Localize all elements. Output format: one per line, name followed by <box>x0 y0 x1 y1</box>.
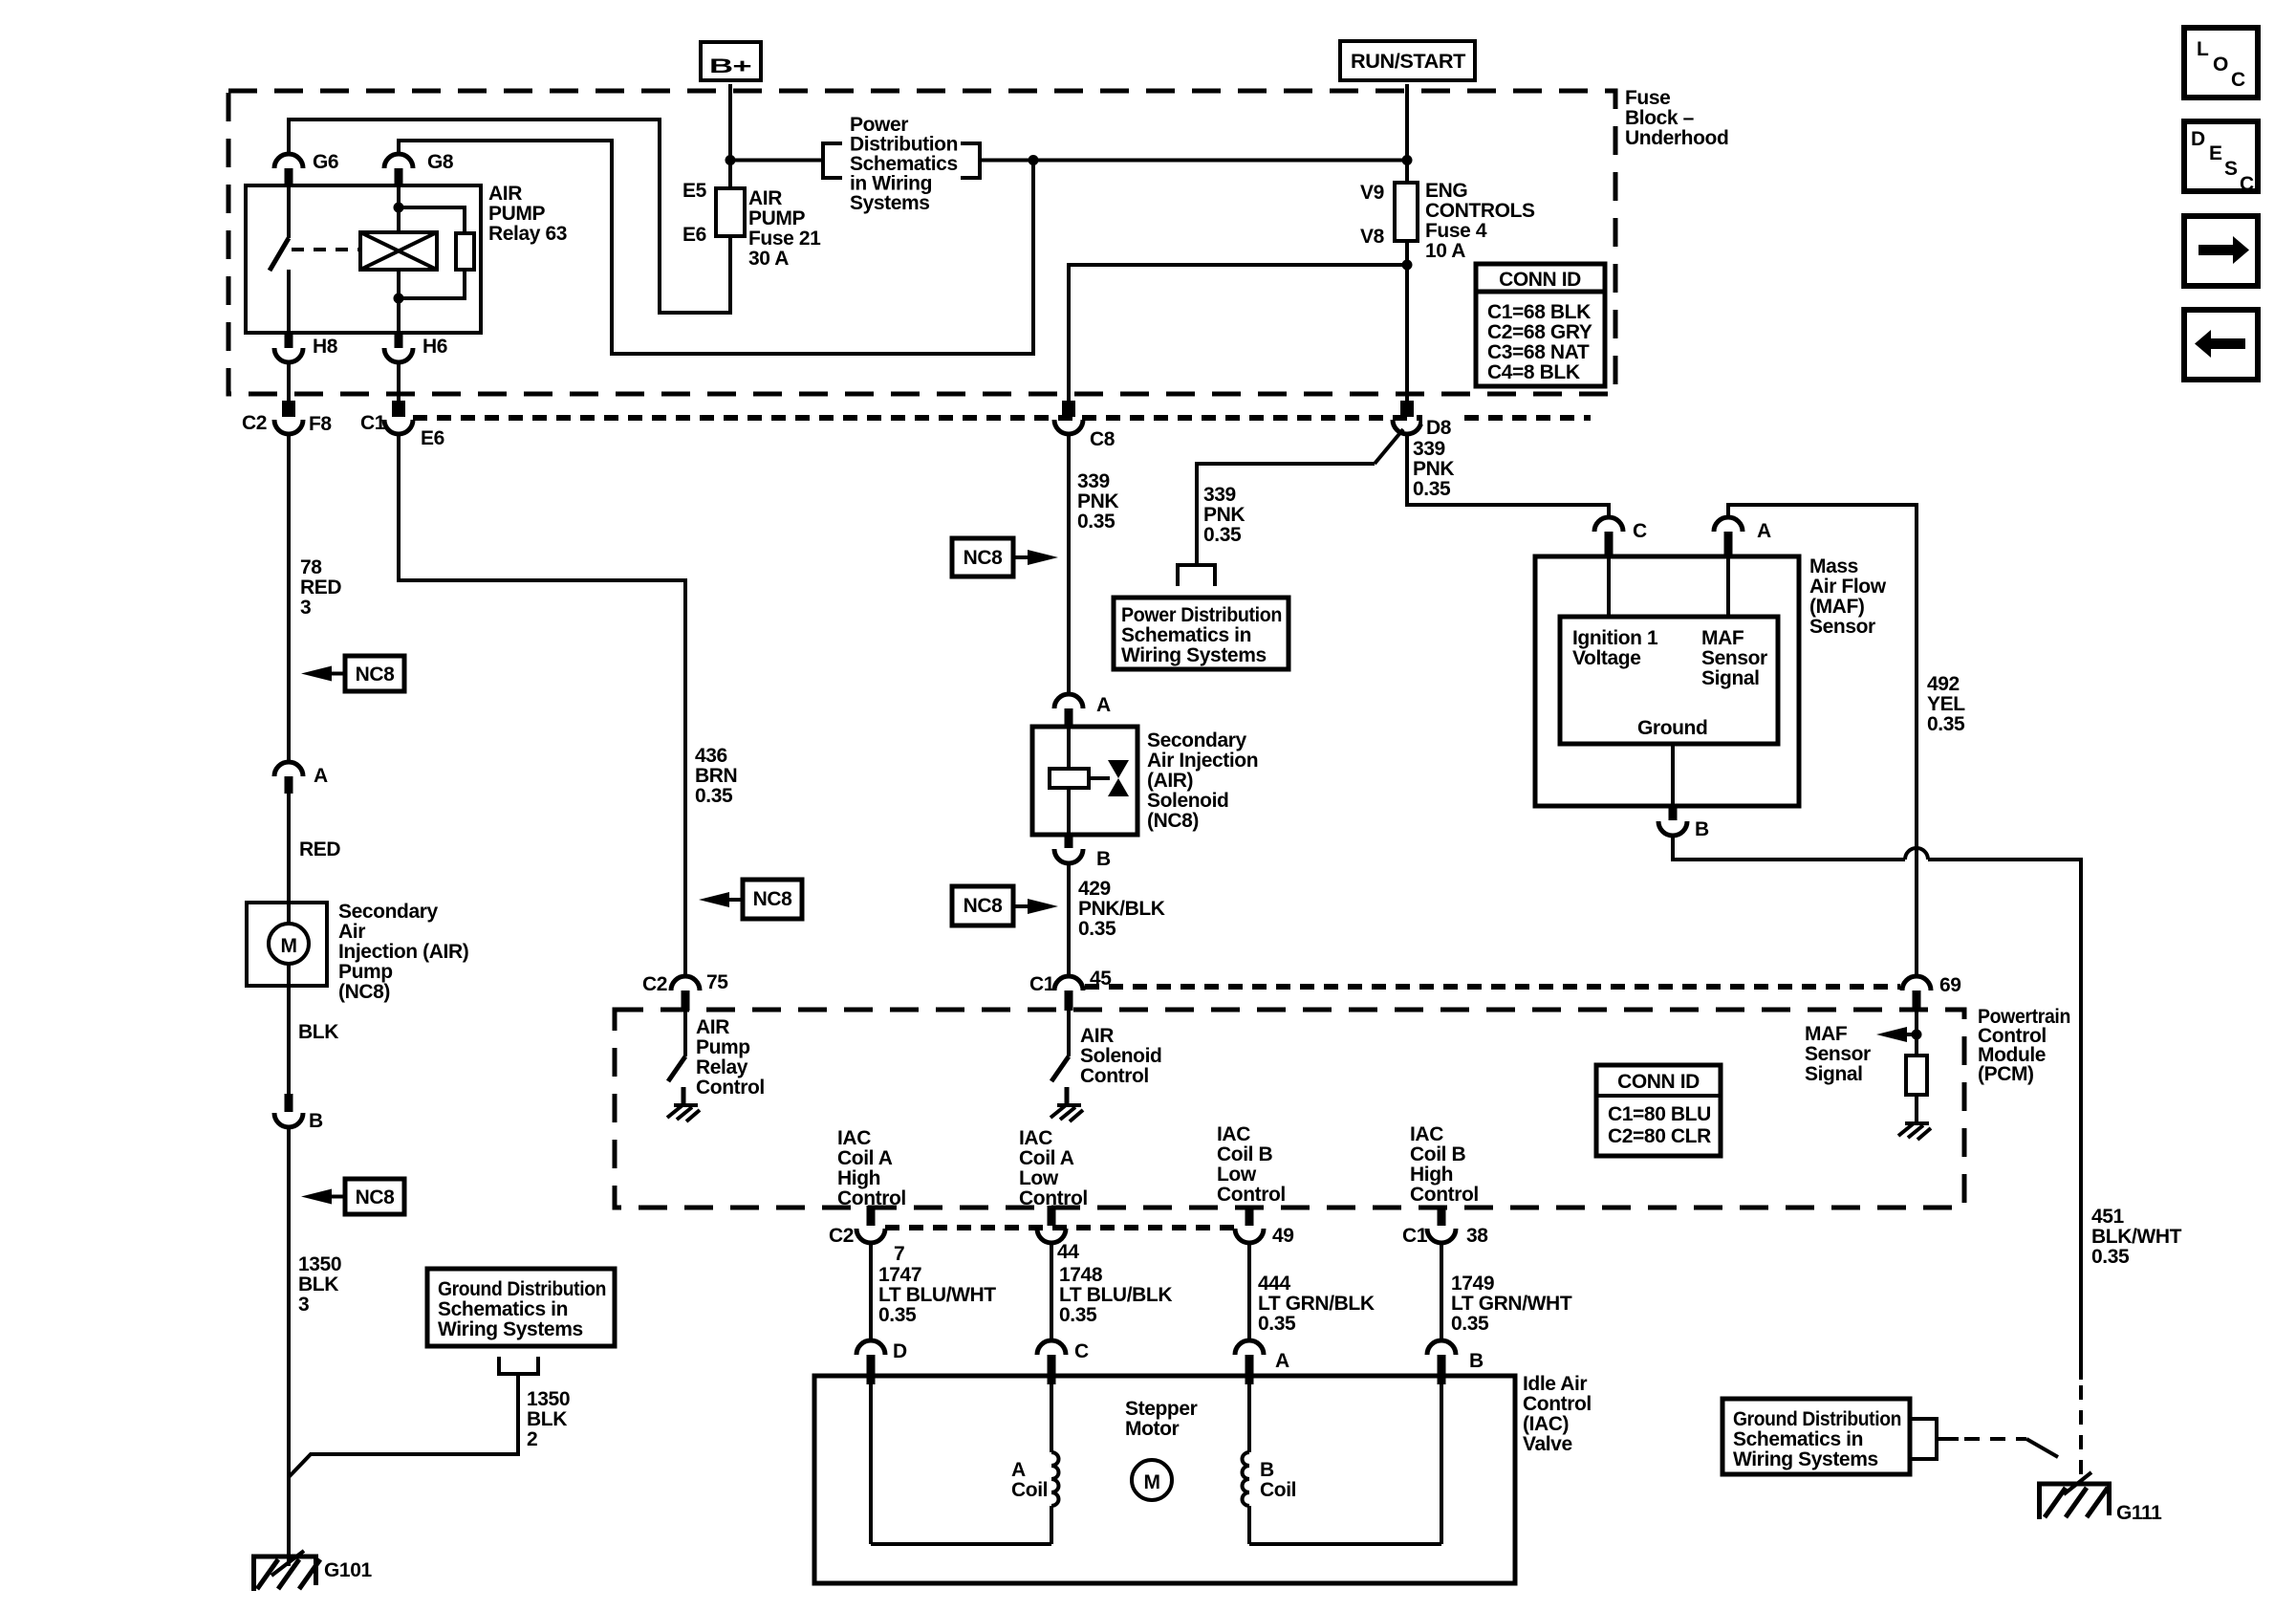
svg-text:Voltage: Voltage <box>1572 647 1641 669</box>
svg-text:38: 38 <box>1466 1225 1488 1247</box>
svg-text:0.35: 0.35 <box>1413 478 1451 500</box>
connector B MAF <box>1658 806 1709 840</box>
svg-text:C3=68 NAT: C3=68 NAT <box>1487 341 1590 363</box>
svg-text:CONTROLS: CONTROLS <box>1425 200 1535 222</box>
wire 451 BLK/WHT B to G111 with hop <box>1673 836 2081 1380</box>
wire MAF pin C <box>1607 556 1611 617</box>
node coil bottom junction <box>394 294 404 304</box>
svg-text:(NC8): (NC8) <box>338 981 390 1003</box>
ground distribution box right <box>1722 1399 1910 1474</box>
PCM air pump relay control driver <box>668 1011 765 1105</box>
svg-text:1350: 1350 <box>298 1253 341 1275</box>
svg-text:339: 339 <box>1203 484 1236 506</box>
svg-text:0.35: 0.35 <box>1077 511 1116 533</box>
svg-text:0.35: 0.35 <box>1203 524 1242 546</box>
connector C IAC <box>1037 1340 1089 1384</box>
svg-text:Mass: Mass <box>1809 555 1858 577</box>
connector D IAC <box>856 1340 907 1384</box>
svg-text:NC8: NC8 <box>356 1186 396 1208</box>
node junction dot G8 feed tap <box>1029 155 1039 165</box>
svg-text:Coil A: Coil A <box>837 1147 893 1169</box>
label Power Distribution Schematics in Wiring Systems <box>850 114 958 214</box>
svg-text:RED: RED <box>299 838 340 860</box>
wire 492 YEL top to MAF A <box>1728 505 1917 976</box>
connector C2 F8 <box>242 401 332 435</box>
wire 1350 BLK 2 to ground <box>289 1374 518 1477</box>
svg-text:0.35: 0.35 <box>1451 1313 1489 1335</box>
svg-text:AIR: AIR <box>1080 1025 1114 1047</box>
svg-text:339: 339 <box>1413 438 1445 460</box>
svg-text:B: B <box>1695 818 1709 840</box>
svg-text:MAF: MAF <box>1805 1023 1848 1045</box>
icon LOC box <box>2184 28 2258 98</box>
svg-text:PUMP: PUMP <box>488 203 545 225</box>
relay K AIR PUMP Relay 83 box <box>246 183 567 333</box>
svg-text:Block –: Block – <box>1625 107 1695 129</box>
label BLK <box>298 1021 338 1043</box>
svg-text:C2: C2 <box>829 1225 854 1247</box>
wire IAC D leg <box>869 1384 873 1544</box>
relay coil box with X <box>360 232 437 270</box>
svg-text:Coil A: Coil A <box>1019 1147 1074 1169</box>
svg-text:B: B <box>1469 1350 1484 1372</box>
svg-text:C2: C2 <box>242 412 267 434</box>
svg-text:(AIR): (AIR) <box>1147 770 1193 792</box>
power distribution schematics left bracket <box>823 143 842 178</box>
solenoid coil element <box>1050 727 1110 835</box>
svg-text:AIR: AIR <box>488 183 522 205</box>
svg-text:LT GRN/BLK: LT GRN/BLK <box>1258 1293 1375 1315</box>
node junction dot V8 tap to C8 <box>1402 260 1413 271</box>
svg-text:D: D <box>893 1340 907 1362</box>
svg-text:Fuse: Fuse <box>1625 87 1670 109</box>
NC8 reference box left arrow at 436 BRN <box>699 880 802 919</box>
svg-text:E: E <box>2209 142 2222 164</box>
svg-text:Air Injection: Air Injection <box>1147 750 1258 772</box>
icon forward arrow box <box>2184 216 2258 286</box>
svg-text:C: C <box>1633 520 1647 542</box>
svg-text:High: High <box>837 1167 880 1189</box>
svg-text:Air: Air <box>338 921 365 943</box>
label Fuse Block - Underhood <box>1625 87 1728 149</box>
svg-text:A: A <box>1275 1350 1289 1372</box>
relay actuator dashed link <box>292 248 358 251</box>
node junction dot at RUN/START line <box>1402 155 1413 165</box>
svg-text:PUMP: PUMP <box>748 207 805 229</box>
svg-text:V8: V8 <box>1360 226 1385 248</box>
label 339 PNK 0.35 at C8 <box>1077 470 1118 533</box>
label 429 PNK/BLK 0.35 <box>1078 878 1165 940</box>
connector C2 7 <box>829 1206 904 1265</box>
label 492 YEL 0.35 <box>1927 673 1965 735</box>
svg-text:Air Flow: Air Flow <box>1809 576 1887 598</box>
wire H8 to C2 F8 <box>287 362 291 403</box>
svg-text:LT BLU/BLK: LT BLU/BLK <box>1059 1284 1172 1306</box>
connector G6 <box>274 151 338 186</box>
B+ power feed box <box>701 42 761 80</box>
svg-text:Sensor: Sensor <box>1805 1043 1871 1065</box>
svg-text:C: C <box>2240 173 2254 195</box>
svg-text:AIR: AIR <box>748 187 782 209</box>
wire IAC B leg <box>1440 1384 1443 1544</box>
connector A MAF <box>1714 517 1771 556</box>
svg-text:B: B <box>1260 1459 1274 1481</box>
svg-text:B+: B+ <box>709 55 751 77</box>
svg-text:G111: G111 <box>2116 1502 2162 1524</box>
svg-text:Low: Low <box>1217 1164 1257 1186</box>
wire power distribution to RUN/START line <box>980 159 1407 163</box>
svg-text:Schematics in: Schematics in <box>438 1298 568 1320</box>
svg-text:0.35: 0.35 <box>1258 1313 1296 1335</box>
svg-text:Power Distribution: Power Distribution <box>1121 604 1282 626</box>
svg-text:High: High <box>1410 1164 1453 1186</box>
svg-text:CONN ID: CONN ID <box>1617 1071 1700 1093</box>
connector 69 <box>1902 974 1961 1011</box>
connector A solenoid <box>1054 694 1111 727</box>
svg-text:Secondary: Secondary <box>338 901 438 923</box>
svg-text:Relay 63: Relay 63 <box>488 223 567 245</box>
svg-text:Coil B: Coil B <box>1217 1143 1272 1165</box>
svg-text:BLK: BLK <box>527 1408 567 1430</box>
svg-text:G8: G8 <box>427 151 454 173</box>
svg-text:30 A: 30 A <box>748 248 789 270</box>
svg-text:Fuse 21: Fuse 21 <box>748 228 821 250</box>
svg-text:G6: G6 <box>313 151 338 173</box>
wire dashed 451 to G111 <box>2079 1385 2083 1476</box>
svg-text:E6: E6 <box>682 224 706 246</box>
svg-text:PNK: PNK <box>1077 490 1118 512</box>
PCM internal ground air pump relay <box>667 1105 700 1121</box>
wire 429 PNK/BLK solenoid B to C1 45 <box>1067 863 1071 976</box>
wire resistor bottom to coil bottom junction <box>399 270 465 298</box>
svg-text:Control: Control <box>1080 1065 1149 1087</box>
RUN/START power feed box <box>1340 41 1475 80</box>
svg-text:1748: 1748 <box>1059 1264 1103 1286</box>
svg-text:Idle Air: Idle Air <box>1523 1373 1587 1395</box>
label 1350 BLK 2 <box>527 1388 570 1450</box>
PCM internal ground MAF <box>1898 1123 1931 1140</box>
svg-text:Solenoid: Solenoid <box>1080 1045 1161 1067</box>
wire 1747 LT BLU/WHT <box>869 1243 873 1341</box>
svg-text:NC8: NC8 <box>964 547 1004 569</box>
svg-text:Relay: Relay <box>696 1056 748 1078</box>
connector C1 E6 <box>360 401 444 449</box>
svg-text:Control: Control <box>696 1077 765 1099</box>
svg-text:BLK/WHT: BLK/WHT <box>2091 1226 2182 1248</box>
svg-text:M: M <box>280 935 296 957</box>
PCM C1 harness dotted row <box>1085 984 1900 990</box>
svg-text:C1=68 BLK: C1=68 BLK <box>1487 301 1591 323</box>
ground G111 <box>2037 1472 2162 1524</box>
solenoid secondary air injection box <box>1032 727 1258 835</box>
label 1749 LT GRN/WHT 0.35 <box>1451 1273 1572 1335</box>
svg-text:1350: 1350 <box>527 1388 570 1410</box>
svg-text:PNK/BLK: PNK/BLK <box>1078 898 1165 920</box>
svg-text:0.35: 0.35 <box>1059 1304 1097 1326</box>
svg-text:75: 75 <box>706 971 728 993</box>
svg-text:C: C <box>2231 69 2245 91</box>
svg-text:0.35: 0.35 <box>2091 1246 2130 1268</box>
svg-text:45: 45 <box>1090 968 1112 990</box>
label 78 RED 3 <box>300 556 341 619</box>
svg-text:BLK: BLK <box>298 1021 338 1043</box>
label 436 BRN 0.35 <box>695 745 737 807</box>
wire 1748 LT BLU/BLK <box>1050 1243 1053 1341</box>
power distribution schematics box middle <box>1114 598 1289 669</box>
svg-text:PNK: PNK <box>1203 504 1245 526</box>
svg-text:E5: E5 <box>682 180 707 202</box>
wire D8 down and right to MAF C <box>1407 434 1609 518</box>
svg-text:339: 339 <box>1077 470 1110 492</box>
wire 339 PNK C8 to solenoid A <box>1067 434 1071 695</box>
svg-text:Wiring Systems: Wiring Systems <box>1121 644 1267 666</box>
connector C1 45 <box>1029 968 1112 1011</box>
svg-text:C1: C1 <box>360 412 386 434</box>
ground distribution right bracket <box>1910 1419 1959 1459</box>
svg-text:PNK: PNK <box>1413 458 1454 480</box>
ground distribution box left <box>427 1269 615 1346</box>
connector D8 <box>1393 401 1462 439</box>
svg-text:NC8: NC8 <box>753 888 793 910</box>
NC8 reference box left arrow upper <box>301 656 404 691</box>
wire G8 feed: tap down, left, up to G8 <box>399 141 1033 354</box>
svg-text:YEL: YEL <box>1927 693 1965 715</box>
svg-text:436: 436 <box>695 745 727 767</box>
inductor B coil <box>1243 1384 1297 1544</box>
icon DESC box <box>2184 121 2258 195</box>
svg-text:LT GRN/WHT: LT GRN/WHT <box>1451 1293 1572 1315</box>
motor stepper circle <box>1132 1460 1172 1500</box>
svg-text:Ground Distribution: Ground Distribution <box>1733 1408 1901 1430</box>
power distribution schematics right bracket <box>961 143 980 178</box>
svg-text:C4=8 BLK: C4=8 BLK <box>1487 361 1580 383</box>
svg-text:Signal: Signal <box>1805 1063 1863 1085</box>
wire 1749 LT GRN/WHT <box>1440 1243 1443 1341</box>
svg-text:L: L <box>2197 38 2209 60</box>
svg-text:C: C <box>1074 1340 1089 1362</box>
icon back arrow box <box>2184 310 2258 380</box>
svg-text:Pump: Pump <box>338 961 393 983</box>
wire BLK pump to B <box>287 986 291 1094</box>
ground G101 <box>251 1551 372 1591</box>
svg-text:Solenoid: Solenoid <box>1147 790 1228 812</box>
svg-text:BRN: BRN <box>695 765 737 787</box>
svg-text:G101: G101 <box>324 1559 372 1581</box>
svg-text:0.35: 0.35 <box>1078 918 1116 940</box>
resistor relay suppression <box>456 233 474 270</box>
wire RED to pump motor <box>287 794 291 903</box>
svg-text:O: O <box>2213 54 2228 76</box>
svg-text:RED: RED <box>300 577 341 599</box>
label Stepper Motor <box>1125 1398 1198 1440</box>
svg-text:C8: C8 <box>1090 428 1116 450</box>
fuse ENG CONTROLS Fuse 4 10A <box>1360 180 1535 262</box>
svg-text:Fuse 4: Fuse 4 <box>1425 220 1487 242</box>
label 339 PNK 0.35 at D8 <box>1413 438 1454 500</box>
label IAC Coil A Low Control <box>1019 1127 1088 1209</box>
connector 49 <box>1235 1206 1294 1247</box>
svg-text:BLK: BLK <box>298 1274 338 1295</box>
svg-text:Control: Control <box>1217 1184 1286 1206</box>
svg-text:Low: Low <box>1019 1167 1059 1189</box>
svg-text:Stepper: Stepper <box>1125 1398 1198 1420</box>
svg-text:A: A <box>1757 520 1771 542</box>
wire 339 PNK branch to power distribution <box>1197 429 1403 565</box>
svg-text:(PCM): (PCM) <box>1978 1063 2034 1085</box>
svg-text:RUN/START: RUN/START <box>1351 51 1466 73</box>
MAF sensor outer box <box>1535 555 1887 806</box>
svg-text:Pump: Pump <box>696 1036 750 1058</box>
label RED <box>299 838 340 860</box>
NC8 reference box left arrow lower <box>301 1179 404 1214</box>
svg-text:1749: 1749 <box>1451 1273 1494 1295</box>
wire IAC B coil loop bottom <box>1249 1542 1441 1546</box>
svg-text:Schematics in: Schematics in <box>1121 624 1251 646</box>
svg-text:Wiring Systems: Wiring Systems <box>1733 1448 1878 1470</box>
svg-text:78: 78 <box>300 556 322 578</box>
label IAC Coil B High Control <box>1410 1123 1479 1206</box>
connector B air pump <box>274 1094 323 1132</box>
svg-text:C2=68 GRY: C2=68 GRY <box>1487 321 1592 343</box>
wire 444 LT GRN/BLK <box>1247 1243 1251 1341</box>
wire coil top to resistor top <box>399 207 465 233</box>
wire B+ down to fuse E5 <box>728 84 732 188</box>
svg-text:2: 2 <box>527 1428 537 1450</box>
node coil top junction <box>394 203 404 213</box>
svg-text:H8: H8 <box>313 336 338 358</box>
connector C8 <box>1054 401 1116 450</box>
svg-text:451: 451 <box>2091 1206 2125 1228</box>
PCM MAF sensor signal input <box>1805 1011 1922 1085</box>
svg-text:69: 69 <box>1939 974 1961 996</box>
svg-text:C2: C2 <box>642 973 667 995</box>
connector C1 38 <box>1402 1206 1488 1247</box>
connector H8 <box>274 333 338 362</box>
svg-text:429: 429 <box>1078 878 1111 900</box>
connector C MAF <box>1594 517 1647 556</box>
svg-text:444: 444 <box>1258 1273 1291 1295</box>
wire fuse V8 down to D8 <box>1405 241 1409 403</box>
PCM internal ground air solenoid <box>1051 1105 1083 1121</box>
ground distribution bracket <box>499 1357 538 1374</box>
wire RUN/START down to fuse V9 <box>1405 84 1409 183</box>
svg-text:F8: F8 <box>309 413 332 435</box>
motor secondary air injection pump <box>247 901 468 1003</box>
connector B IAC <box>1427 1340 1484 1384</box>
svg-text:Injection (AIR): Injection (AIR) <box>338 941 468 963</box>
MAF sensor inner box <box>1560 617 1778 744</box>
svg-text:Systems: Systems <box>850 192 930 214</box>
powertrain control module dashed border <box>615 1006 2070 1208</box>
svg-text:Sensor: Sensor <box>1809 616 1875 638</box>
wire coil bottom to H6 <box>397 270 401 333</box>
svg-text:A: A <box>314 765 328 787</box>
svg-text:H6: H6 <box>422 336 447 358</box>
svg-text:Sensor: Sensor <box>1701 647 1767 669</box>
svg-text:NC8: NC8 <box>964 895 1004 917</box>
wire dashed ground distribution to G111 <box>1964 1439 2058 1457</box>
label IAC Coil A High Control <box>837 1127 906 1209</box>
svg-text:492: 492 <box>1927 673 1960 695</box>
svg-text:IAC: IAC <box>1019 1127 1052 1149</box>
svg-text:IAC: IAC <box>1217 1123 1250 1145</box>
svg-text:3: 3 <box>298 1294 309 1316</box>
CONN ID table PCM <box>1596 1065 1721 1156</box>
label 339 PNK 0.35 branch <box>1203 484 1245 546</box>
svg-text:Ignition 1: Ignition 1 <box>1572 627 1658 649</box>
label 451 BLK/WHT 0.35 <box>2091 1206 2182 1268</box>
connector B solenoid <box>1054 835 1111 870</box>
node junction dot at B+ tap <box>726 155 736 165</box>
label 1747 LT BLU/WHT 0.35 <box>878 1264 996 1326</box>
connector C2 75 <box>642 971 728 1011</box>
idle air control valve box <box>814 1373 1592 1583</box>
svg-text:NC8: NC8 <box>356 664 396 686</box>
svg-text:0.35: 0.35 <box>1927 713 1965 735</box>
power distribution branch bracket <box>1178 565 1215 586</box>
wire MAF ground to B <box>1671 744 1675 806</box>
wire MAF pin A <box>1726 556 1730 617</box>
label 1748 LT BLU/BLK 0.35 <box>1059 1264 1172 1326</box>
svg-text:M: M <box>1143 1471 1159 1493</box>
svg-text:Control: Control <box>1410 1184 1479 1206</box>
svg-text:Secondary: Secondary <box>1147 729 1246 751</box>
svg-text:V9: V9 <box>1360 182 1384 204</box>
IAC harness connector dotted row <box>885 1225 1237 1230</box>
svg-text:C2=80 CLR: C2=80 CLR <box>1608 1125 1711 1147</box>
svg-text:LT BLU/WHT: LT BLU/WHT <box>878 1284 996 1306</box>
wire B+ tap to power distribution bracket <box>730 159 823 163</box>
svg-text:(IAC): (IAC) <box>1523 1413 1569 1435</box>
svg-text:MAF: MAF <box>1701 627 1744 649</box>
svg-text:A: A <box>1096 694 1111 716</box>
label 1350 BLK 3 <box>298 1253 341 1316</box>
wire IAC A coil loop bottom <box>871 1542 1051 1546</box>
solenoid valve bowtie <box>1108 760 1129 796</box>
svg-text:7: 7 <box>894 1243 904 1265</box>
svg-text:Valve: Valve <box>1523 1433 1572 1455</box>
label IAC Coil B Low Control <box>1217 1123 1286 1206</box>
svg-text:B: B <box>309 1110 323 1132</box>
svg-text:Wiring Systems: Wiring Systems <box>438 1318 583 1340</box>
svg-text:C1: C1 <box>1402 1225 1428 1247</box>
label 444 LT GRN/BLK 0.35 <box>1258 1273 1375 1335</box>
svg-text:S: S <box>2224 158 2238 180</box>
wire H6 to C1 E6 <box>397 362 401 403</box>
svg-text:(MAF): (MAF) <box>1809 596 1864 618</box>
PCM air solenoid control driver <box>1051 1011 1161 1105</box>
NC8 reference box right arrow upper <box>952 538 1058 577</box>
svg-text:AIR: AIR <box>696 1016 729 1038</box>
svg-text:Coil: Coil <box>1011 1479 1048 1501</box>
svg-text:0.35: 0.35 <box>878 1304 917 1326</box>
svg-text:D: D <box>2191 128 2205 150</box>
svg-text:(NC8): (NC8) <box>1147 810 1199 832</box>
svg-text:Ground Distribution: Ground Distribution <box>438 1278 606 1300</box>
svg-text:44: 44 <box>1057 1241 1079 1263</box>
svg-text:C1: C1 <box>1029 973 1055 995</box>
svg-text:3: 3 <box>300 597 311 619</box>
harness connector row C2/C1/C8/D8 dotted line <box>413 415 1591 421</box>
svg-text:Underhood: Underhood <box>1625 127 1728 149</box>
connector G8 <box>384 151 454 186</box>
fuse block - underhood dashed border <box>228 91 1615 394</box>
wire fuse E6 out: down, left, up, left to G6 <box>289 120 730 313</box>
wire 436 BRN from C1 E6 to C2 75 <box>399 434 685 976</box>
svg-text:IAC: IAC <box>1410 1123 1443 1145</box>
connector 44 <box>1037 1206 1079 1263</box>
connector A IAC <box>1235 1340 1289 1384</box>
